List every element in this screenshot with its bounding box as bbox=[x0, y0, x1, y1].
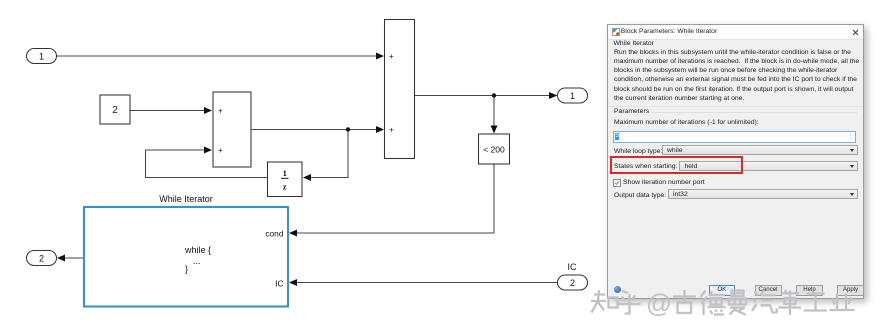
watermark char gu bbox=[673, 290, 696, 313]
separator above Parameters bbox=[608, 106, 863, 107]
arrowhead into big sum input 2 bbox=[376, 126, 384, 133]
while loop type row bbox=[614, 148, 662, 155]
watermark char man bbox=[729, 291, 746, 315]
arrowhead into IC port bbox=[289, 279, 297, 286]
compare block < 200 bbox=[479, 134, 510, 164]
watermark char qi bbox=[752, 291, 777, 313]
footer help sphere bbox=[614, 286, 621, 293]
while iterator subsystem block bbox=[84, 194, 288, 307]
wire big sum output to outport1 bbox=[415, 95, 551, 97]
arrowhead into sum1 input 2 bbox=[204, 147, 212, 154]
arrowhead into outport1 bbox=[549, 92, 558, 99]
text input bbox=[613, 131, 856, 143]
sum block S1 bbox=[213, 92, 251, 167]
arrowhead into cond port bbox=[289, 230, 297, 237]
sum block S2 (big) bbox=[385, 20, 415, 159]
output data type row bbox=[614, 192, 666, 199]
watermark char zhi bbox=[591, 290, 618, 313]
states when starting row bbox=[614, 163, 677, 170]
heading bbox=[614, 40, 654, 47]
red highlight rectangle bbox=[610, 156, 743, 175]
inport 2 (IC) bbox=[558, 262, 588, 290]
wire unit delay output feedback to sum1 bbox=[146, 150, 268, 178]
close X bbox=[852, 29, 859, 36]
max iterations label bbox=[614, 119, 759, 126]
watermark char gong bbox=[804, 294, 827, 311]
svg-text:@: @ bbox=[646, 291, 672, 319]
watermark char che bbox=[779, 290, 802, 315]
unit delay block 1/z bbox=[268, 162, 303, 197]
arrowhead into sum1 input 1 bbox=[204, 107, 212, 114]
junction dot A bbox=[346, 127, 350, 131]
wire while block to outport2 bbox=[64, 257, 84, 259]
arrowhead into outport2 bbox=[57, 255, 65, 262]
outport 2 bbox=[27, 251, 57, 266]
outport 1 bbox=[558, 88, 588, 103]
arrowhead into big sum input 1 bbox=[376, 53, 384, 60]
arrowhead into compare block bbox=[491, 126, 498, 134]
watermark char de bbox=[701, 291, 726, 316]
title icon bbox=[612, 28, 620, 36]
footer buttons bbox=[709, 285, 736, 296]
junction dot B bbox=[492, 93, 496, 97]
arrowhead into unit delay bbox=[303, 174, 311, 181]
wire inport2 IC to IC port bbox=[296, 282, 558, 284]
title bar bbox=[608, 25, 863, 40]
checkbox row bbox=[613, 179, 621, 187]
Parameters group label bbox=[614, 108, 649, 115]
wire inport1 to big sum bbox=[57, 55, 378, 57]
description bbox=[614, 48, 864, 104]
wire constant to sum1 bbox=[130, 110, 205, 112]
wire sum1 output to junction to big sum bbox=[251, 129, 377, 131]
constant block value 2 bbox=[100, 95, 130, 124]
watermark char hu bbox=[618, 291, 641, 314]
inport 1 bbox=[27, 49, 57, 64]
wire junction down to unit delay bbox=[310, 130, 348, 178]
wire compare output to cond port bbox=[296, 164, 494, 233]
wire junction down to compare block bbox=[493, 96, 495, 128]
watermark char ye bbox=[830, 294, 855, 311]
